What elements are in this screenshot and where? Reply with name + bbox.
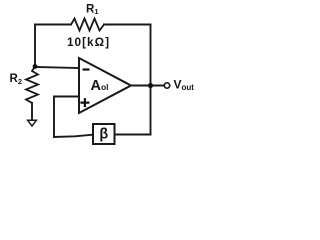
wire op-amp output [131, 85, 164, 87]
svg-text:10[kΩ]: 10[kΩ] [67, 35, 110, 49]
wire top-left segment [35, 24, 71, 26]
wire to beta block [115, 134, 151, 136]
ground [28, 120, 37, 126]
op-amp minus sign [83, 68, 90, 70]
wire to inverting input [35, 67, 79, 68]
op-amp U1 [79, 58, 131, 113]
node A (feedback junction) [33, 64, 38, 69]
block B (beta) [93, 124, 115, 144]
svg-text:Aol: Aol [91, 78, 109, 94]
svg-text:R2: R2 [10, 73, 22, 86]
terminal Vout [164, 83, 169, 88]
wire R2 to ground [31, 103, 33, 120]
wire output down [150, 86, 152, 135]
wire right vertical [150, 25, 152, 86]
node B (output junction) [148, 83, 153, 88]
svg-text:Vout: Vout [174, 78, 195, 93]
wire noninverting input [54, 97, 93, 138]
svg-text:β: β [99, 127, 108, 143]
op-amp plus sign [80, 98, 89, 107]
wire top-right segment [104, 24, 151, 26]
resistor R1 [71, 19, 104, 31]
resistor R2 [26, 67, 38, 104]
svg-text:R1: R1 [86, 4, 98, 17]
wire left vertical [34, 25, 36, 67]
